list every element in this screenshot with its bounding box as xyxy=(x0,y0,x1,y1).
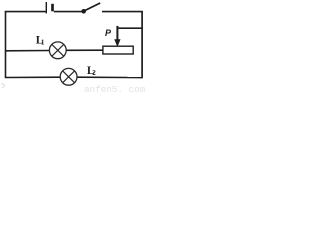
wire: right rail (top corner down to bottom corner) xyxy=(141,11,143,78)
battery cell: short thick plate (right) xyxy=(51,4,54,12)
lamp L1: cross filament xyxy=(52,44,64,56)
wire: wiper to right rail xyxy=(117,27,143,29)
lamp L2: envelope circle xyxy=(60,68,77,85)
rheostat P: resistor body rectangle xyxy=(103,46,133,54)
wire: left rail (top corner to L1 branch junction) xyxy=(5,12,7,52)
wire: top rail segment switch to right corner xyxy=(102,11,143,13)
svg-text:1: 1 xyxy=(41,39,45,47)
svg-text:anfen5. com: anfen5. com xyxy=(84,84,145,93)
lamp L2: cross filament xyxy=(63,71,75,83)
wire: bottom rail right segment (lamp L2 to right corner) xyxy=(77,76,143,78)
switch S: pivot dot xyxy=(81,9,86,14)
battery cell: long thin plate (left) xyxy=(45,2,47,13)
wire: L1 branch, left rail to lamp L1 xyxy=(5,50,49,52)
svg-text:P: P xyxy=(105,28,112,38)
wire: top rail segment battery to switch xyxy=(54,11,82,13)
wire: lamp L1 to rheostat left terminal xyxy=(66,49,103,51)
rheostat P: wiper vertical stem with arrowhead xyxy=(116,26,118,41)
switch S: open blade xyxy=(85,3,101,11)
wire: top rail left segment (left corner to battery) xyxy=(6,11,46,14)
svg-text:2: 2 xyxy=(92,69,96,77)
lamp L1: envelope circle xyxy=(49,42,66,59)
watermark fragment bottom-left xyxy=(1,84,5,88)
wire: bottom rail left segment (left corner to lamp L2) xyxy=(6,51,61,78)
